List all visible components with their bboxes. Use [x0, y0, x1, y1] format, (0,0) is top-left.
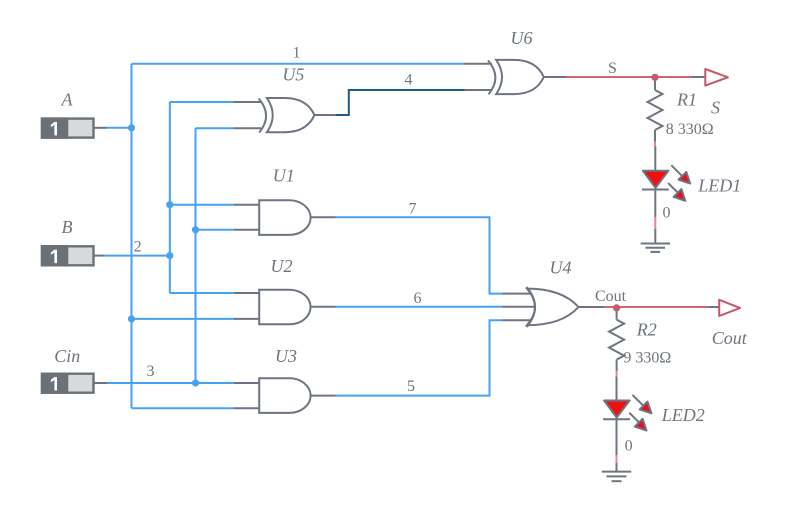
junction on A bus at U2 bottom input — [128, 315, 135, 322]
and gate U2 — [259, 290, 310, 325]
svg-text:U6: U6 — [511, 28, 533, 48]
wire U5 bottom input row from Cin bus — [196, 127, 235, 129]
junction on Cin bus at switch Cin — [192, 379, 199, 386]
svg-text:Cout: Cout — [595, 288, 627, 305]
wire switch Cin to U3 top input — [95, 382, 108, 384]
ground below LED1 — [641, 229, 670, 252]
wire net 1 top horizontal — [132, 63, 465, 65]
switch A — [41, 117, 94, 138]
junction net Cout — [613, 304, 620, 311]
ground below LED2 — [602, 463, 631, 481]
wire switch B to bus — [95, 255, 105, 257]
wire red segment R2 to LED2 — [616, 371, 618, 376]
junction on Cin bus at U1 bottom input — [192, 226, 199, 233]
svg-text:2: 2 — [134, 238, 142, 255]
output connector Cout arrow — [719, 300, 740, 316]
svg-text:8 330Ω: 8 330Ω — [666, 121, 714, 138]
svg-text:4: 4 — [405, 72, 413, 89]
wire net B vertical bus — [169, 102, 171, 293]
led LED2 — [603, 376, 651, 455]
svg-text:LED1: LED1 — [697, 176, 741, 196]
svg-text:0: 0 — [663, 205, 671, 222]
svg-text:U2: U2 — [271, 256, 293, 276]
wire net 6 U2 output to U4 input — [311, 306, 336, 308]
resistor R1 — [648, 82, 663, 142]
svg-text:S: S — [608, 60, 617, 77]
svg-text:A: A — [61, 89, 74, 109]
svg-text:6: 6 — [414, 290, 422, 307]
svg-text:1: 1 — [293, 44, 301, 61]
junction on B bus at U1 top input — [166, 201, 173, 208]
wire net Cout U4 output — [579, 306, 605, 308]
xor gate U5 — [259, 98, 315, 133]
wire net A vertical bus — [131, 64, 133, 409]
and gate U1 — [259, 200, 310, 235]
svg-text:S: S — [711, 98, 720, 118]
svg-text:7: 7 — [409, 200, 417, 217]
svg-text:R1: R1 — [676, 90, 697, 110]
svg-text:U3: U3 — [275, 346, 297, 366]
wire U2 bottom input row from A bus — [132, 318, 235, 320]
wire net 7 U1 output to U4 input — [311, 216, 336, 218]
wire U5 top input row from B bus — [170, 101, 234, 103]
output connector S arrow — [705, 69, 728, 86]
svg-text:B: B — [62, 217, 73, 237]
wire U1 bottom input row from Cin bus — [196, 229, 235, 231]
switch B — [41, 245, 94, 266]
junction on A bus at switch A — [128, 124, 135, 131]
wire red segment above R1 — [654, 78, 656, 82]
svg-text:LED2: LED2 — [661, 405, 705, 425]
svg-text:U5: U5 — [282, 64, 304, 84]
wire red segment above R2 — [616, 308, 618, 312]
resistor R2 — [609, 312, 624, 372]
svg-text:3: 3 — [147, 363, 155, 380]
wire U1 top input row from B bus — [170, 204, 234, 206]
led LED1 — [642, 147, 690, 218]
switch Cin — [41, 373, 94, 394]
wire net Cin vertical bus — [195, 128, 197, 383]
and gate U3 — [259, 378, 310, 413]
wire U6 pin 1 stub — [464, 63, 492, 65]
svg-text:U4: U4 — [550, 258, 572, 278]
wire pink segment LED2 to ground — [616, 455, 618, 463]
junction on B bus at switch B — [166, 252, 173, 259]
svg-text:Cin: Cin — [54, 346, 80, 366]
svg-text:5: 5 — [407, 378, 415, 395]
wire net S U6 output — [544, 76, 566, 78]
wire net 5 U3 output to U4 input — [311, 395, 336, 397]
junction net S — [651, 74, 658, 81]
wire net 4 U5 output to U6 input — [315, 114, 336, 116]
svg-text:9 330Ω: 9 330Ω — [623, 349, 671, 366]
xor gate U6 — [488, 60, 544, 95]
or gate U4 — [527, 287, 579, 327]
wire U3 bottom input row from A bus — [132, 407, 235, 409]
wire pink segment LED1 to ground — [654, 217, 656, 229]
svg-text:Cout: Cout — [712, 328, 748, 348]
wire switch A to bus — [95, 127, 108, 129]
svg-text:0: 0 — [625, 437, 633, 454]
wire red segment R1 to LED1 — [654, 142, 656, 147]
wire U2 top input row from B bus — [170, 292, 234, 294]
svg-text:U1: U1 — [273, 166, 295, 186]
svg-text:R2: R2 — [636, 319, 657, 339]
